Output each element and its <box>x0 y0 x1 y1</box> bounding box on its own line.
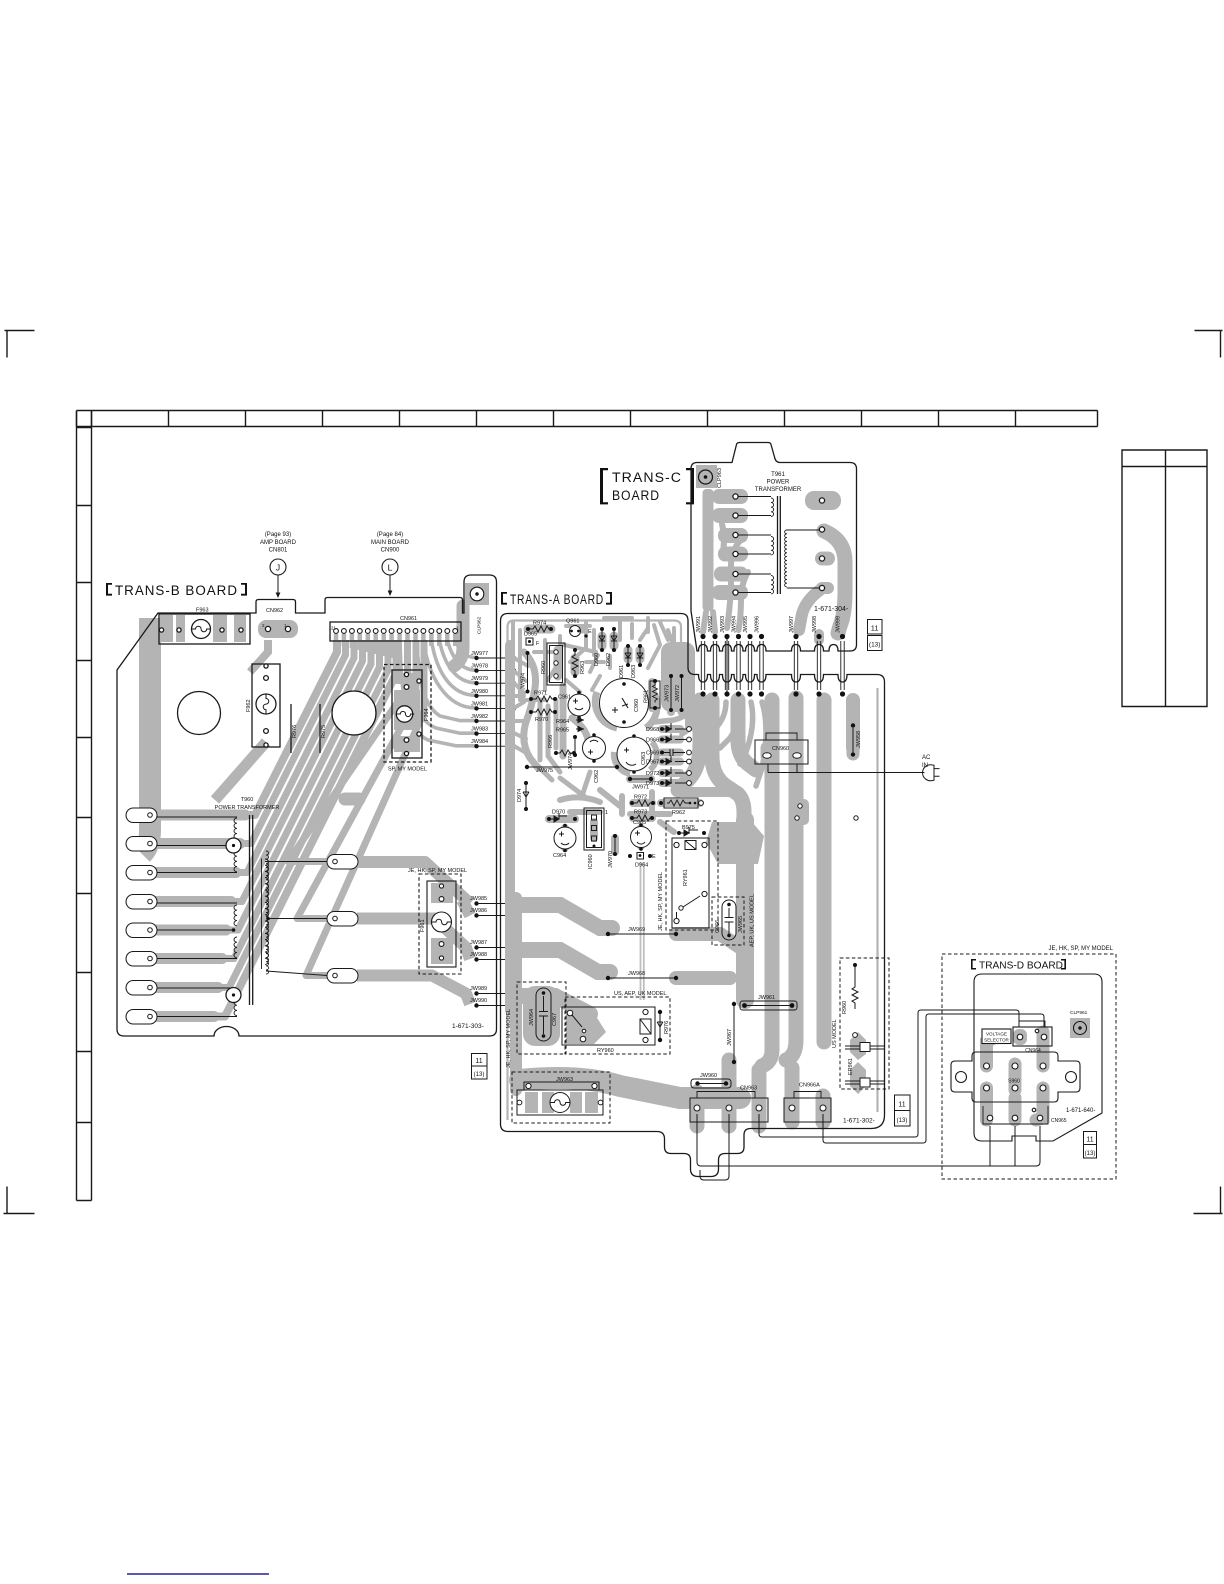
RY961 pins <box>674 842 679 847</box>
trace S960 col1 upper <box>987 1036 998 1066</box>
T960 primary winding B <box>157 903 237 959</box>
resistor R970 <box>529 709 557 723</box>
T960 terminal 7 <box>126 981 157 996</box>
svg-text:(Page 84): (Page 84) <box>377 532 403 538</box>
AC IN plug <box>768 755 940 781</box>
svg-text:JW995: JW995 <box>743 616 749 633</box>
svg-text:TRANS-A BOARD: TRANS-A BOARD <box>510 592 604 607</box>
trace T961 secondary pin 4 band <box>799 588 828 630</box>
T960 right terminal 3 <box>327 969 358 984</box>
F962 holes <box>264 664 268 668</box>
svg-text:(13): (13) <box>869 642 881 649</box>
svg-text:CN960: CN960 <box>772 746 789 752</box>
diode D968 <box>646 723 691 733</box>
svg-text:R964: R964 <box>556 719 569 725</box>
connector CN960 <box>755 733 808 764</box>
trace F962 tail <box>215 742 266 800</box>
trace arm JW989 <box>516 996 590 1014</box>
svg-text:F962: F962 <box>246 699 252 712</box>
page ref boxes 11 (13) TRANS-B <box>472 1054 488 1080</box>
svg-text:SELECTOR: SELECTOR <box>984 1038 1009 1043</box>
wire CN966A pin2 to CN964 pin2 <box>823 1014 1044 1143</box>
trace band relay right <box>736 820 754 1000</box>
svg-text:MAIN BOARD: MAIN BOARD <box>371 540 410 546</box>
CN962 pins <box>265 626 270 631</box>
left ruler ticks <box>77 428 92 1123</box>
CN964 box <box>1013 1027 1052 1046</box>
svg-text:JW977: JW977 <box>471 651 488 657</box>
T960 terminal 5 <box>126 923 157 938</box>
crop mark top-left <box>5 331 35 358</box>
trace blob center <box>345 793 359 806</box>
spare hole pads <box>795 804 858 820</box>
svg-text:IC960: IC960 <box>588 854 594 869</box>
svg-text:D961: D961 <box>619 665 625 678</box>
svg-text:JW964: JW964 <box>529 1009 535 1026</box>
CLP961 ring <box>1074 1022 1087 1035</box>
revision table top-right <box>1122 450 1207 707</box>
jumper JW994 <box>732 616 742 697</box>
svg-text:L: L <box>388 563 393 573</box>
jumper JW995 <box>743 616 753 697</box>
jumper JW975 <box>525 765 619 774</box>
trace S960 col3 lower <box>1036 1088 1043 1120</box>
page ref boxes 11 (13) top <box>868 620 883 651</box>
VOLTAGE SELECTOR label box <box>982 1029 1011 1044</box>
svg-text:E: E <box>652 854 656 860</box>
CLP962 dot <box>475 592 478 595</box>
resistor R962 <box>659 798 703 816</box>
trace blob JW964 area <box>523 986 560 1046</box>
jumper JW967 <box>727 1002 736 1064</box>
jumper JW970 <box>608 834 617 868</box>
jumper JW958 <box>851 723 862 756</box>
F961 outline <box>427 881 456 967</box>
svg-text:JW991: JW991 <box>696 616 702 633</box>
T960 core lines <box>250 815 253 1005</box>
svg-text:POWER: POWER <box>767 480 790 486</box>
svg-text:C961: C961 <box>558 695 571 701</box>
jumper JW996 <box>755 616 765 697</box>
connector CN966A <box>784 1083 831 1123</box>
svg-text:JW958: JW958 <box>856 731 862 748</box>
T960 terminal 8 <box>126 1010 157 1025</box>
jumper JW998 <box>812 616 822 697</box>
T960 winding B tap <box>232 928 236 932</box>
resistor R966 <box>548 735 576 756</box>
plate hole left <box>956 1072 967 1083</box>
trace blob diode ladder <box>662 729 680 783</box>
svg-text:CN961: CN961 <box>400 616 417 622</box>
diode D974 <box>517 781 529 811</box>
svg-text:R965: R965 <box>556 728 569 734</box>
trace bars JW963 <box>525 1092 538 1113</box>
left ruler band <box>77 411 92 1201</box>
trace mass lower mid <box>560 790 674 832</box>
trace stub JW998 <box>814 634 824 640</box>
svg-text:JW996: JW996 <box>755 616 761 633</box>
trace bottom bus to CN963 <box>520 1078 740 1098</box>
trace fan CN961 to terminal arm 4 <box>134 640 363 902</box>
svg-text:AMP BOARD: AMP BOARD <box>260 540 297 546</box>
svg-text:CN963: CN963 <box>740 1086 757 1092</box>
svg-text:S960: S960 <box>1008 1079 1020 1085</box>
trace S960 col1 lower <box>980 1088 993 1120</box>
svg-text:US, AEP, UK MODEL: US, AEP, UK MODEL <box>614 991 666 997</box>
F961 dashed box <box>419 874 461 974</box>
F961 holes <box>439 884 443 888</box>
diode B975 <box>677 825 706 836</box>
svg-text:Q961: Q961 <box>566 619 579 625</box>
jumpers JW985-JW990 rows <box>470 896 515 1008</box>
T961 primary winding 1 <box>738 497 774 517</box>
TRANS-C board title (two lines) <box>600 468 694 504</box>
T960 terminal 2 <box>126 837 157 852</box>
svg-text:F963: F963 <box>196 608 209 614</box>
svg-text:C965: C965 <box>633 820 646 826</box>
RY961 contact <box>674 891 707 923</box>
svg-text:D970: D970 <box>552 810 565 816</box>
T960 terminal 6 <box>126 952 157 967</box>
board outline TRANS-C <box>691 443 857 652</box>
svg-text:JW997: JW997 <box>789 616 795 633</box>
trace fingers to JW991-992 pins <box>703 612 715 632</box>
connector CN963 <box>690 1086 768 1123</box>
T961 primary winding 2 <box>738 535 774 555</box>
svg-text:C962: C962 <box>594 770 600 783</box>
trace fan CN961 to terminal arm 8 <box>134 640 397 1017</box>
trace band B2 from JW997 <box>786 698 796 1060</box>
diode D963 <box>631 644 643 678</box>
T960 primary winding C <box>157 988 237 1017</box>
svg-text:J: J <box>276 563 280 573</box>
svg-text:TRANSFORMER: TRANSFORMER <box>755 487 802 493</box>
capacitor C969 <box>646 749 691 757</box>
trace thin pair center <box>641 862 644 1000</box>
trace pads mid components <box>549 678 700 852</box>
svg-text:(13): (13) <box>474 1072 485 1078</box>
svg-text:JW982: JW982 <box>471 714 488 720</box>
crop mark bottom-left <box>4 1187 35 1214</box>
fuse ER961 bottom <box>845 1058 885 1087</box>
trace fan to JW982 <box>416 640 477 721</box>
trace pads F961 <box>431 883 453 903</box>
svg-text:JW970: JW970 <box>608 851 614 868</box>
trace pad CLP963 plate <box>696 465 717 488</box>
trace fan CN961 to terminal arm 3 <box>134 640 354 873</box>
svg-text:CN965: CN965 <box>1051 1118 1067 1124</box>
trace terminal arms wide <box>134 815 245 1017</box>
svg-text:D962: D962 <box>606 653 612 666</box>
svg-text:JW980: JW980 <box>471 689 488 695</box>
trace h-connector mid <box>678 700 734 792</box>
svg-text:ER961: ER961 <box>848 1058 854 1075</box>
jumper JW969 <box>606 927 678 936</box>
jumper R976 <box>290 704 292 753</box>
svg-text:JE, HK, SP, MY MODEL: JE, HK, SP, MY MODEL <box>1049 946 1114 952</box>
CLP963 ring <box>699 470 713 484</box>
F963 fuse symbol <box>192 620 211 639</box>
T961 primary winding 3 <box>738 574 774 594</box>
svg-text:AEP, UK, US MODEL: AEP, UK, US MODEL <box>750 894 756 947</box>
svg-text:JE, HK, SP, MY MODEL: JE, HK, SP, MY MODEL <box>658 872 664 931</box>
F961 fuse symbol <box>432 912 452 932</box>
svg-text:B975: B975 <box>682 825 695 831</box>
T960 primary winding A <box>157 817 237 873</box>
svg-text:T961: T961 <box>771 472 785 478</box>
svg-text:21: 21 <box>331 626 337 631</box>
trace pad CLP962 <box>465 583 489 605</box>
svg-text:(13): (13) <box>1085 1151 1096 1157</box>
svg-text:JW975: JW975 <box>536 768 553 774</box>
svg-text:D972: D972 <box>646 771 659 777</box>
svg-text:TRANS-B BOARD: TRANS-B BOARD <box>115 583 238 598</box>
svg-text:R973: R973 <box>634 810 647 816</box>
resistor block R960 <box>541 643 565 685</box>
capacitor C966 / jumper JW965 dashed box <box>712 897 744 945</box>
svg-text:C960: C960 <box>634 699 640 712</box>
diode D962 <box>606 627 617 666</box>
CLP961 center dot <box>1078 1026 1081 1029</box>
svg-text:F961: F961 <box>420 919 426 932</box>
svg-text:AC: AC <box>922 755 931 761</box>
trace arm JW987 <box>516 950 610 972</box>
svg-text:SP, MY MODEL: SP, MY MODEL <box>388 767 427 773</box>
svg-text:(13): (13) <box>897 1118 908 1124</box>
trace fan CN961 to terminal arm 7 <box>134 640 388 988</box>
svg-text:D960: D960 <box>594 653 600 666</box>
wire CN965 pin2 drop <box>1014 1126 1016 1166</box>
resistor R972 <box>630 795 655 807</box>
trace US MODEL blobs <box>850 1032 866 1094</box>
jumper JW971 <box>628 777 653 791</box>
relay RY961 body <box>672 838 709 928</box>
trace fan to JW983 <box>408 640 477 733</box>
svg-text:(Page 93): (Page 93) <box>265 532 291 538</box>
svg-text:11: 11 <box>871 624 879 633</box>
svg-text:BOARD: BOARD <box>612 488 660 503</box>
trace pad T961 primary pin 2 <box>712 508 748 523</box>
trace inner contour TRANS-A <box>508 621 878 1121</box>
wire CN963 pin2 drop <box>700 1114 729 1180</box>
trace band B1 from JW996 <box>762 700 772 1066</box>
svg-text:D964: D964 <box>635 863 648 869</box>
svg-text:JW998: JW998 <box>812 616 818 633</box>
trace pad T961 secondary pin 3 <box>822 552 828 566</box>
T961 secondary winding <box>785 530 820 588</box>
trace band CN962 <box>258 620 298 638</box>
svg-text:R960: R960 <box>842 1001 848 1014</box>
trace pads F963 <box>160 615 173 642</box>
TRANS-A board title <box>501 592 612 607</box>
jumpers JW977-JW984 rows <box>471 651 516 748</box>
svg-text:JW987: JW987 <box>470 940 487 946</box>
svg-text:JW994: JW994 <box>732 616 738 633</box>
svg-text:JE, HK, SP, MY MODEL: JE, HK, SP, MY MODEL <box>506 1009 512 1068</box>
trace pad T961 primary pin 3 <box>718 528 748 543</box>
trace pad T961 primary pin 5 <box>714 567 748 582</box>
mounting hole right <box>332 691 376 735</box>
trace left edge stubs <box>514 658 528 754</box>
trace pad CN966A pin1 <box>785 1068 800 1122</box>
diode D961 <box>619 644 631 678</box>
resistor R961 <box>644 679 661 710</box>
trace JW963 bus <box>510 898 522 1090</box>
svg-text:R971: R971 <box>534 691 547 697</box>
T960 winding C tap <box>226 988 241 1003</box>
T960 right terminal 2 <box>327 912 358 927</box>
svg-text:JW968: JW968 <box>628 971 645 977</box>
capacitor C960 <box>600 679 649 728</box>
trace band right of CN961 <box>454 606 463 666</box>
jumper JW992 <box>708 616 718 697</box>
wire CN963 pin1 to CN965 pins <box>697 1114 1040 1166</box>
svg-text:JW988: JW988 <box>470 952 487 958</box>
svg-text:JW961: JW961 <box>758 995 775 1001</box>
F964 fuse symbol <box>396 706 412 722</box>
blue underline bottom-left <box>127 1573 269 1575</box>
svg-text:JW969: JW969 <box>628 927 645 933</box>
mounting hole left <box>178 692 221 735</box>
svg-text:JW992: JW992 <box>708 616 714 633</box>
T960 secondary winding <box>266 851 269 974</box>
page ref boxes 11 (13) TRANS-A <box>895 1095 911 1126</box>
jumper JW993 <box>720 616 730 697</box>
T960 terminal 4 <box>126 895 157 910</box>
trace pad T961 primary pin 1 <box>712 489 748 504</box>
svg-text:T960: T960 <box>241 797 254 803</box>
svg-text:11: 11 <box>475 1058 482 1065</box>
diode D972 <box>646 767 691 777</box>
svg-text:R975: R975 <box>321 725 327 738</box>
svg-text:R974: R974 <box>533 621 546 627</box>
trace arm right JW968 <box>676 971 730 985</box>
svg-text:JW985: JW985 <box>470 896 487 902</box>
resistor R960B <box>842 963 858 1014</box>
board outline TRANS-B <box>117 575 497 1036</box>
jumper JW964 / capacitor C967 dashed box <box>517 982 566 1054</box>
trace pad CN966A pin2 <box>816 1096 831 1122</box>
T960 terminal 3 <box>126 866 157 881</box>
trace blob R961 region <box>661 642 695 712</box>
svg-text:11: 11 <box>898 1102 905 1109</box>
svg-text:JW984: JW984 <box>471 739 488 745</box>
F963 holes <box>159 628 163 632</box>
svg-text:CLP963: CLP963 <box>717 468 723 488</box>
svg-text:VOLTAGE: VOLTAGE <box>986 1032 1007 1037</box>
CN964 pins <box>1017 1034 1023 1040</box>
S960 pins <box>984 1063 990 1069</box>
board outline TRANS-A <box>501 614 885 1177</box>
svg-text:C969: C969 <box>646 751 659 757</box>
diode D966 <box>646 734 691 744</box>
selector plate outline <box>951 1052 1080 1102</box>
trace arm right JW969 <box>676 934 744 950</box>
jumper JW974b <box>521 651 530 694</box>
svg-text:E: E <box>588 629 592 635</box>
trace pad CN963 pin1 <box>690 1092 705 1126</box>
svg-text:JE, HK, SP, MY MODEL: JE, HK, SP, MY MODEL <box>408 868 467 874</box>
svg-text:CN966A: CN966A <box>799 1083 820 1089</box>
trace mesh top cluster <box>513 618 676 700</box>
trace band B4 from JW999 <box>846 700 860 748</box>
jumper JW991 <box>696 616 706 697</box>
trace S960 col2 mid <box>1009 1064 1022 1090</box>
trace band B3 from JW998 <box>817 700 832 1042</box>
svg-text:R962: R962 <box>672 810 685 816</box>
diode D970 <box>547 810 577 823</box>
trace ring C960 <box>595 688 657 728</box>
jumper JW961 <box>740 995 797 1010</box>
connector JW963 dashed box <box>512 1072 610 1123</box>
capacitor C963 <box>617 734 651 774</box>
trace fan CN961 to terminal arm 5 <box>134 640 371 930</box>
dashed outline TRANS-D area <box>942 954 1116 1179</box>
svg-text:CN801: CN801 <box>269 548 288 554</box>
trace mass below comb <box>678 700 756 826</box>
ref MAIN BOARD CN900 <box>371 532 410 596</box>
T961 primary pin holes <box>733 494 738 499</box>
trace RY960 blobs <box>566 1010 606 1044</box>
top ruler ticks <box>92 411 1016 427</box>
trace pad T961 primary pin 4 <box>718 547 748 562</box>
relay RY961 dashed box <box>666 821 718 930</box>
CLP963 center dot <box>704 475 708 479</box>
jumper JW997 <box>789 616 799 697</box>
T960 terminal 1 <box>126 808 157 823</box>
svg-text:1: 1 <box>605 810 608 816</box>
board outline TRANS-D <box>974 974 1102 1141</box>
F962 fuse symbol <box>256 694 276 714</box>
trace S960 col3 upper <box>1037 1032 1050 1066</box>
trace fan to JW977 <box>455 640 476 658</box>
resistor R971 <box>529 691 557 703</box>
svg-text:D963: D963 <box>631 665 637 678</box>
TRANS-D board title <box>971 959 1066 972</box>
trace fan CN961 to terminal arm 6 <box>134 640 380 959</box>
diode D960 <box>594 627 605 666</box>
svg-text:JW978: JW978 <box>471 664 488 670</box>
crop mark top-right <box>1195 331 1223 358</box>
svg-text:R972: R972 <box>634 795 647 801</box>
F964 outline <box>392 670 422 758</box>
trace pad spare holes <box>792 799 809 825</box>
svg-text:C967: C967 <box>552 1013 558 1026</box>
trace pad CN963 pin2 <box>722 1060 737 1126</box>
svg-text:D966: D966 <box>646 738 659 744</box>
transistor D964 pads <box>628 853 656 869</box>
trace band left edge TRANS-A <box>505 645 515 1010</box>
svg-text:11: 11 <box>1086 1137 1093 1144</box>
trace arm right terminal 1 to JW985 <box>357 862 470 916</box>
trace stubs CN961 pins <box>336 634 455 658</box>
trace pad T961 secondary pin 1 <box>805 491 841 510</box>
svg-text:JW979: JW979 <box>471 676 488 682</box>
F963 fuse outline <box>159 614 250 644</box>
svg-text:JW999: JW999 <box>836 616 842 633</box>
svg-text:CLP962: CLP962 <box>477 616 483 634</box>
top ruler band <box>77 411 1098 427</box>
svg-text:R976: R976 <box>292 725 298 738</box>
svg-text:C966: C966 <box>715 920 721 933</box>
diode D967 <box>646 756 691 766</box>
CLP962 ring <box>470 587 484 601</box>
trace S960 col2 lower <box>1009 1098 1022 1120</box>
svg-text:JW972: JW972 <box>675 685 681 702</box>
svg-text:JW990: JW990 <box>470 998 487 1004</box>
svg-text:D974: D974 <box>517 789 523 802</box>
svg-text:POWER TRANSFORMER: POWER TRANSFORMER <box>215 805 280 811</box>
